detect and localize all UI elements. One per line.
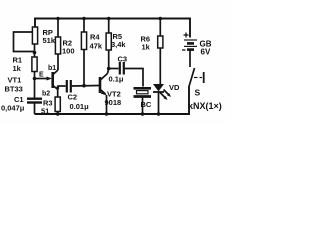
battery GB xyxy=(184,40,197,50)
svg-text:51k: 51k xyxy=(43,36,56,45)
earphone BC xyxy=(134,88,152,114)
resistor R1 xyxy=(32,57,37,72)
svg-text:b2: b2 xyxy=(42,91,50,98)
svg-text:9018: 9018 xyxy=(105,98,122,107)
svg-text:0.01μ: 0.01μ xyxy=(70,102,90,111)
value label VD xyxy=(169,83,180,92)
wire collector to C3 xyxy=(109,68,119,70)
node junction collector/C3 xyxy=(107,67,111,71)
wire bottom return rail xyxy=(35,86,190,115)
value label R1 1k xyxy=(13,56,23,74)
transistor VT2 xyxy=(100,74,108,115)
node junction rail at VT2 emitter xyxy=(105,112,109,116)
value label VT1 BT33 xyxy=(5,76,23,94)
node junction rail at R3 xyxy=(56,112,60,116)
svg-text:3,4k: 3,4k xyxy=(111,40,126,49)
wire b2 junction to R3 xyxy=(57,86,59,98)
node junction rail at BC xyxy=(141,112,145,116)
resistor R6 xyxy=(158,19,163,85)
svg-text:kNX(1×): kNX(1×) xyxy=(188,101,222,111)
node label b2 xyxy=(42,91,50,98)
value label C2 0.01u xyxy=(68,93,90,112)
node junction wiper/R1 xyxy=(33,51,37,55)
svg-text:VD: VD xyxy=(169,83,180,92)
switch S xyxy=(189,68,203,86)
value label R3 51 xyxy=(41,99,53,116)
node junction rail at VD xyxy=(157,112,161,116)
wire R1 bottom to C1 xyxy=(34,72,36,99)
svg-text:0,047μ: 0,047μ xyxy=(1,104,25,113)
value label RP 51k xyxy=(43,28,56,45)
svg-text:VT1: VT1 xyxy=(8,76,22,85)
wire C1 bottom to rail xyxy=(34,103,36,115)
node junction b2 xyxy=(56,87,59,90)
wire RP wiper loop xyxy=(14,32,35,52)
node label E xyxy=(39,72,44,79)
svg-text:C3: C3 xyxy=(118,55,128,64)
value label R2 100 xyxy=(62,39,75,56)
capacitor C2 xyxy=(67,80,71,93)
value label VT2 9018 xyxy=(105,90,122,108)
wire C3 to earphone xyxy=(125,69,143,87)
node junction emitter E xyxy=(33,77,37,81)
pin label minus xyxy=(182,49,186,51)
capacitor C1 xyxy=(27,99,42,103)
svg-text:6V: 6V xyxy=(201,48,211,57)
svg-text:E: E xyxy=(39,72,44,79)
resistor R3 xyxy=(55,97,60,114)
svg-text:C2: C2 xyxy=(68,93,78,102)
wire C2 to VT2 base xyxy=(72,85,99,88)
node junction top rail at R5 xyxy=(107,17,111,21)
capacitor C3 xyxy=(120,62,124,75)
value label BC xyxy=(141,100,152,109)
value label GB 6V xyxy=(200,40,212,57)
value label S kNX(1x) xyxy=(188,88,222,112)
value label C3 0.1u xyxy=(109,55,128,84)
wire battery to switch xyxy=(189,50,191,67)
svg-text:1k: 1k xyxy=(142,43,151,52)
wire top supply rail xyxy=(35,19,190,38)
resistor R4 xyxy=(81,19,86,86)
svg-text:47k: 47k xyxy=(90,42,103,51)
svg-text:BC: BC xyxy=(141,100,152,109)
svg-text:b1: b1 xyxy=(48,65,56,72)
pin label plus xyxy=(184,33,189,38)
value label R6 1k xyxy=(141,35,151,52)
svg-text:1k: 1k xyxy=(13,64,22,73)
node junction top rail at R2 xyxy=(56,17,60,21)
potentiometer RP xyxy=(32,27,37,44)
svg-text:S: S xyxy=(195,88,201,98)
node junction top rail at R4 xyxy=(82,17,86,21)
transistor VT1 xyxy=(53,70,58,90)
value label C1 0,047u xyxy=(1,95,25,113)
value label R5 3,4k xyxy=(111,32,126,49)
node junction R4/C2/base xyxy=(82,84,86,88)
value label R4 47k xyxy=(90,33,103,51)
resistor R2 xyxy=(55,19,60,71)
wire emitter to VT1 xyxy=(35,77,53,81)
svg-text:100: 100 xyxy=(62,47,75,56)
node label b1 xyxy=(48,65,56,72)
svg-text:R4: R4 xyxy=(90,33,100,42)
svg-text:0.1μ: 0.1μ xyxy=(109,75,124,84)
wire RP bottom to R1 xyxy=(34,44,36,57)
resistor R5 xyxy=(106,19,111,74)
node junction top rail at R6 xyxy=(159,17,163,21)
wire b2 to C2 xyxy=(58,85,66,87)
svg-text:BT33: BT33 xyxy=(5,85,23,94)
LED VD xyxy=(153,84,171,114)
